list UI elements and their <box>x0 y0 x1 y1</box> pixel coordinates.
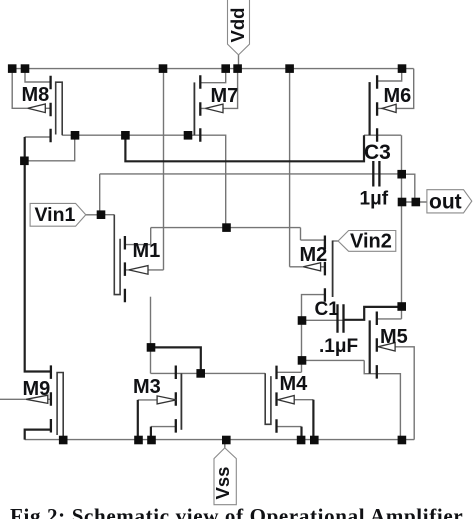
svg-text:Vdd: Vdd <box>227 8 248 43</box>
svg-text:M7: M7 <box>211 85 239 107</box>
svg-text:Fig 2: Schematic view of Opera: Fig 2: Schematic view of Operational Amp… <box>10 504 463 519</box>
svg-text:out: out <box>429 191 462 214</box>
svg-text:C3: C3 <box>364 141 391 164</box>
svg-text:M9: M9 <box>23 378 51 400</box>
svg-text:M4: M4 <box>280 373 309 395</box>
svg-text:M1: M1 <box>133 240 161 262</box>
svg-text:Vin2: Vin2 <box>350 231 392 253</box>
svg-text:M6: M6 <box>384 85 412 107</box>
svg-text:Vss: Vss <box>212 467 233 500</box>
svg-text:M2: M2 <box>300 244 328 266</box>
svg-text:Vin1: Vin1 <box>35 204 76 226</box>
svg-text:C1: C1 <box>315 299 340 320</box>
svg-text:1μf: 1μf <box>360 189 389 210</box>
svg-text:M3: M3 <box>133 376 161 398</box>
svg-text:M5: M5 <box>380 326 408 348</box>
svg-text:M8: M8 <box>22 84 50 106</box>
svg-text:.1μF: .1μF <box>319 336 358 357</box>
